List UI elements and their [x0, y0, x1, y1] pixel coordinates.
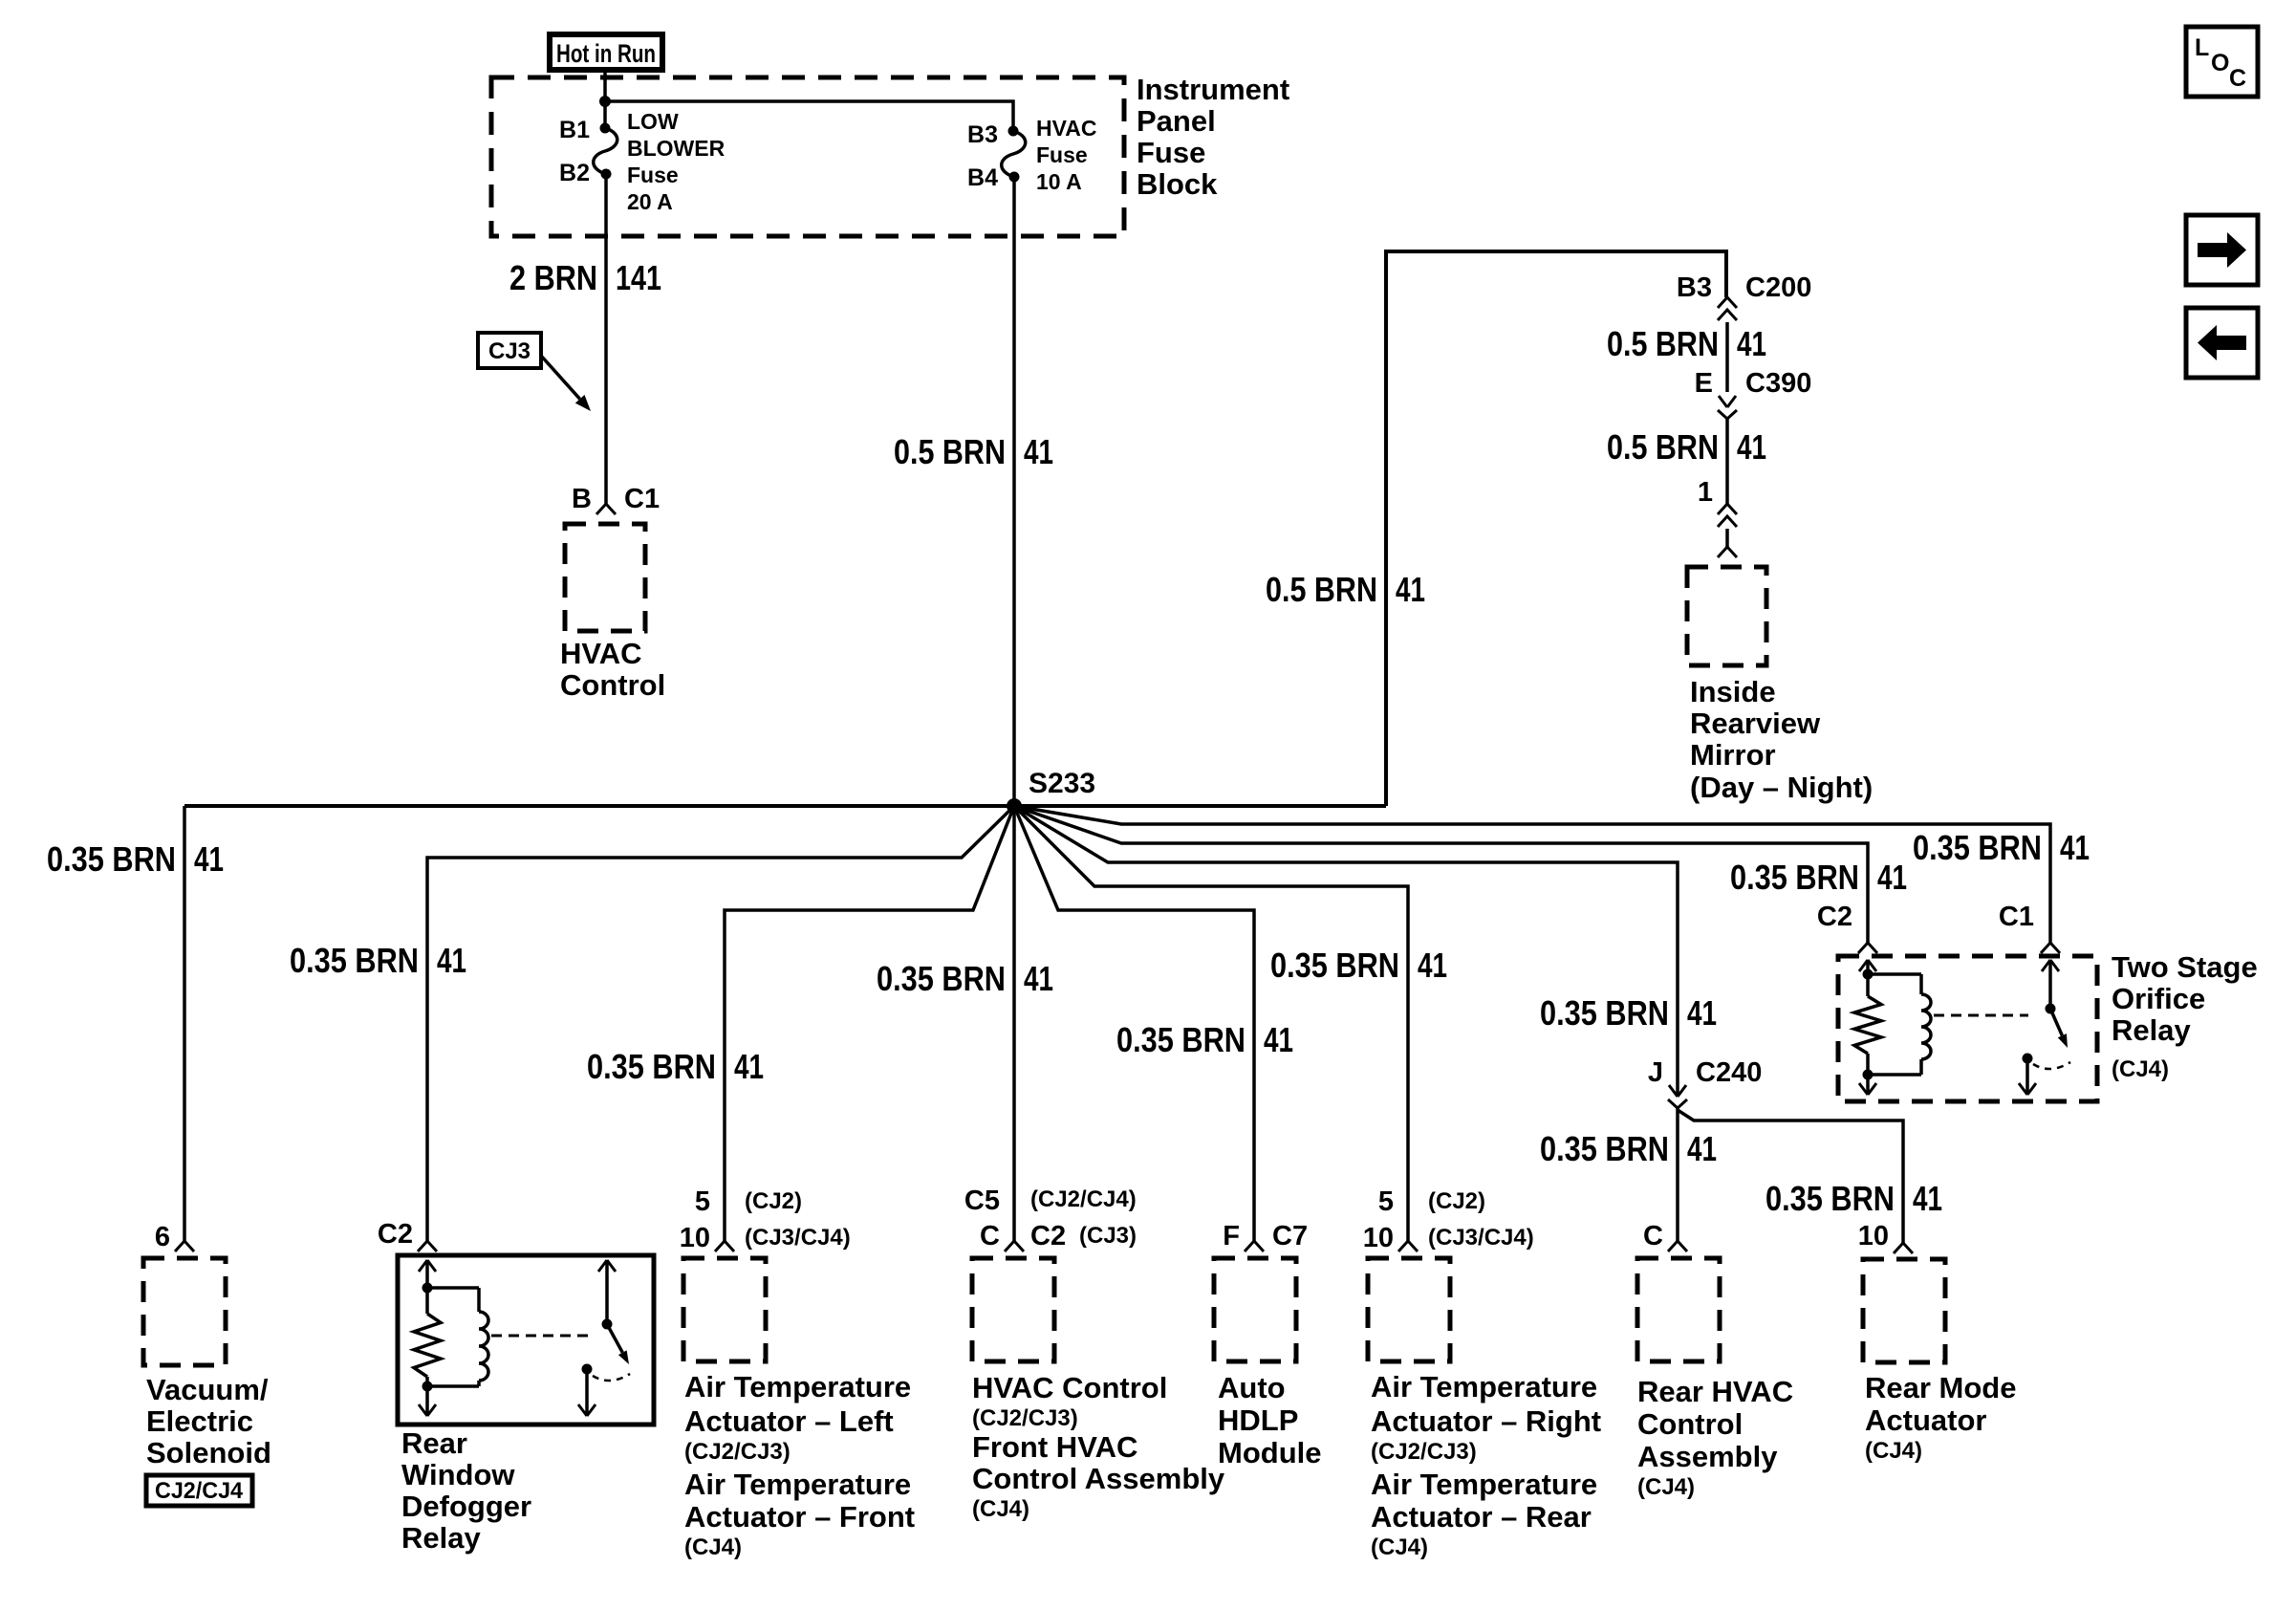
- wire: C240 down to Rear HVAC Control Assembly C, 0.35 BRN 41: [1676, 1108, 1679, 1241]
- svg-text:6: 6: [155, 1222, 170, 1252]
- defogger relay switch contact dot: [582, 1364, 593, 1375]
- svg-text:0.35 BRN: 0.35 BRN: [587, 1047, 716, 1086]
- terminal chevron at air temp actuator left: [715, 1241, 734, 1251]
- svg-text:Inside: Inside: [1690, 675, 1776, 708]
- LOC legend icon box: [2186, 27, 2258, 97]
- svg-text:41: 41: [1024, 432, 1053, 471]
- wire: connector 1 to mirror terminal: [1725, 529, 1729, 547]
- svg-text:B4: B4: [967, 164, 998, 191]
- wire: loop up and over to inline connector C200, 0.5 BRN 41: [1386, 251, 1726, 806]
- svg-text:0.35 BRN: 0.35 BRN: [1540, 1129, 1669, 1168]
- svg-text:(CJ2): (CJ2): [745, 1188, 802, 1214]
- svg-text:5: 5: [695, 1186, 710, 1217]
- terminal chevron at rear HVAC control assembly: [1668, 1241, 1687, 1251]
- terminal chevron at solenoid: [175, 1241, 194, 1251]
- svg-text:0.35 BRN: 0.35 BRN: [290, 941, 419, 980]
- svg-text:Fuse: Fuse: [1036, 142, 1088, 167]
- wire: S233 to inline connector J/C240, 0.35 BRN 41: [1014, 806, 1678, 1097]
- defogger relay resistor: [425, 1288, 429, 1314]
- svg-text:Block: Block: [1137, 167, 1218, 201]
- HVAC Control component dashed box: [565, 524, 645, 631]
- svg-text:2 BRN: 2 BRN: [509, 258, 597, 297]
- orifice relay control dashed link: [1934, 1014, 2028, 1017]
- svg-text:BLOWER: BLOWER: [627, 136, 726, 161]
- Air Temperature Actuator Right dashed box: [1368, 1258, 1450, 1361]
- svg-text:C390: C390: [1745, 368, 1811, 399]
- svg-text:41: 41: [2060, 828, 2090, 867]
- svg-text:141: 141: [616, 258, 661, 297]
- svg-text:1: 1: [1698, 477, 1713, 508]
- svg-text:B3: B3: [1677, 272, 1712, 303]
- defogger relay bottom junction dot: [422, 1382, 433, 1392]
- svg-text:10: 10: [1363, 1223, 1394, 1253]
- svg-text:(CJ4): (CJ4): [2112, 1056, 2169, 1082]
- orifice relay switch dashed arc: [2033, 1062, 2070, 1069]
- inline connector E/C390 arrow and chevron: [1719, 396, 1727, 407]
- terminal chevron at HVAC Control C1: [596, 504, 616, 514]
- terminal chevron at auto HDLP module: [1245, 1241, 1264, 1251]
- svg-text:Instrument: Instrument: [1137, 73, 1289, 106]
- orifice relay resistor: [1866, 974, 1870, 996]
- svg-text:(CJ4): (CJ4): [972, 1496, 1029, 1522]
- svg-text:10 A: 10 A: [1036, 169, 1082, 194]
- orifice relay coil return arrow down: [1866, 1075, 1870, 1095]
- svg-text:(CJ2/CJ3): (CJ2/CJ3): [684, 1439, 791, 1465]
- wire: junction to fuse B1: [603, 101, 607, 128]
- orifice relay coil input arrow up: [1859, 960, 1868, 971]
- wire: S233 to orifice relay C1, 0.35 BRN 41: [1014, 806, 2050, 943]
- svg-text:Actuator: Actuator: [1865, 1403, 1986, 1437]
- svg-text:(CJ2): (CJ2): [1428, 1188, 1485, 1214]
- svg-text:Fuse: Fuse: [1137, 136, 1205, 169]
- tag box CJ2/CJ4: [146, 1475, 252, 1506]
- junction dot at fuse block feed: [599, 96, 611, 107]
- fuse F2 HVAC 10A terminals B3/B4: [1008, 126, 1019, 137]
- svg-text:Assembly: Assembly: [1637, 1440, 1778, 1473]
- svg-text:41: 41: [1737, 427, 1766, 467]
- svg-text:Module: Module: [1218, 1436, 1322, 1469]
- terminal chevron at rear mode actuator: [1894, 1243, 1913, 1253]
- inline connector 1 double chevron: [1718, 504, 1737, 514]
- svg-text:0.35 BRN: 0.35 BRN: [1730, 858, 1859, 897]
- svg-text:41: 41: [1264, 1020, 1293, 1059]
- svg-text:Vacuum/: Vacuum/: [146, 1373, 269, 1406]
- svg-text:J: J: [1648, 1057, 1663, 1088]
- svg-text:Control: Control: [560, 668, 665, 702]
- svg-text:10: 10: [680, 1223, 710, 1253]
- Vacuum/Electric Solenoid dashed box: [143, 1258, 226, 1365]
- svg-text:F: F: [1223, 1221, 1240, 1251]
- svg-text:Air Temperature: Air Temperature: [684, 1468, 911, 1501]
- svg-text:S233: S233: [1029, 768, 1095, 799]
- wire: fuse B2 to HVAC Control pin B, 2 BRN 141: [604, 174, 608, 504]
- svg-text:B: B: [572, 484, 592, 514]
- svg-text:C240: C240: [1696, 1057, 1762, 1088]
- defogger relay control dashed link: [491, 1335, 595, 1338]
- svg-text:C1: C1: [624, 484, 660, 514]
- svg-text:O: O: [2211, 50, 2229, 76]
- Auto HDLP Module dashed box: [1214, 1258, 1296, 1361]
- svg-text:C: C: [980, 1221, 1000, 1251]
- svg-text:(Day – Night): (Day – Night): [1690, 771, 1873, 804]
- wire: junction across to fuse B3: [605, 101, 1013, 131]
- svg-text:C2: C2: [378, 1219, 413, 1250]
- svg-text:0.5 BRN: 0.5 BRN: [1266, 570, 1377, 609]
- defogger relay switch pivot dot: [602, 1319, 613, 1330]
- Inside Rearview Mirror dashed box: [1687, 567, 1766, 665]
- svg-text:C2: C2: [1030, 1221, 1066, 1251]
- orifice relay top junction dot: [1863, 969, 1874, 980]
- Rear Mode Actuator dashed box: [1863, 1259, 1945, 1362]
- svg-text:Rearview: Rearview: [1690, 707, 1821, 740]
- defogger relay switch common arrow up: [598, 1260, 607, 1272]
- svg-text:LOW: LOW: [627, 109, 679, 134]
- wire: S233 straight down to HVAC Control C5/C, 0.35 BRN 41: [1012, 806, 1016, 1241]
- svg-text:Actuator – Right: Actuator – Right: [1371, 1404, 1601, 1438]
- svg-text:CJ3: CJ3: [488, 338, 531, 364]
- svg-text:(CJ2/CJ4): (CJ2/CJ4): [1030, 1186, 1137, 1212]
- svg-text:(CJ3/CJ4): (CJ3/CJ4): [745, 1225, 851, 1251]
- svg-text:0.35 BRN: 0.35 BRN: [1116, 1020, 1245, 1059]
- svg-text:(CJ4): (CJ4): [1865, 1438, 1922, 1464]
- wire: Hot in Run down into fuse block: [603, 67, 607, 101]
- svg-text:41: 41: [437, 941, 466, 980]
- svg-text:Air Temperature: Air Temperature: [1371, 1370, 1597, 1403]
- inline connector J/C240 arrow and chevron: [1669, 1085, 1678, 1097]
- orifice relay switch blade: [2050, 1009, 2062, 1035]
- terminal chevron at HVAC control assembly: [1005, 1241, 1024, 1251]
- svg-text:Control: Control: [1637, 1407, 1743, 1441]
- splice S233: [1007, 798, 1022, 814]
- Front HVAC Control Assembly dashed box: [972, 1258, 1054, 1361]
- svg-text:B3: B3: [967, 121, 998, 148]
- svg-text:HVAC: HVAC: [1036, 116, 1096, 141]
- svg-text:L: L: [2195, 34, 2209, 61]
- orifice relay switch pivot dot: [2046, 1004, 2056, 1014]
- inline connector C200 double chevron: [1718, 297, 1737, 308]
- svg-text:Solenoid: Solenoid: [146, 1436, 271, 1469]
- svg-text:C: C: [1643, 1221, 1663, 1251]
- back-arrow icon box: [2186, 308, 2258, 378]
- terminal chevron at Inside Rearview Mirror: [1718, 547, 1737, 557]
- svg-text:Two Stage: Two Stage: [2112, 950, 2258, 984]
- svg-text:C: C: [2229, 65, 2246, 92]
- svg-text:0.35 BRN: 0.35 BRN: [47, 839, 176, 879]
- svg-text:Air Temperature: Air Temperature: [1371, 1468, 1597, 1501]
- wire: C200 to C390, 0.5 BRN 41: [1725, 322, 1729, 392]
- svg-text:Rear Mode: Rear Mode: [1865, 1371, 2016, 1404]
- svg-text:0.5 BRN: 0.5 BRN: [1607, 324, 1719, 363]
- callout box CJ3 with arrow: [478, 333, 541, 368]
- svg-text:Actuator – Front: Actuator – Front: [684, 1500, 915, 1534]
- forward-arrow icon box: [2186, 215, 2258, 285]
- svg-text:Hot in Run: Hot in Run: [556, 39, 656, 68]
- wire: bus corner down to Vacuum/Electric Solenoid, 0.35 BRN 41: [183, 806, 186, 1241]
- svg-text:41: 41: [194, 839, 224, 879]
- terminal chevron at orifice relay C1: [2041, 943, 2060, 953]
- svg-text:Fuse: Fuse: [627, 163, 679, 187]
- fuse F1 LOW BLOWER 20A terminals B1/B2: [600, 123, 611, 134]
- svg-text:41: 41: [1877, 858, 1907, 897]
- Rear Window Defogger Relay box: [398, 1255, 654, 1425]
- defogger relay output arrow down: [585, 1369, 589, 1416]
- svg-text:0.35 BRN: 0.35 BRN: [1913, 828, 2042, 867]
- defogger relay coil return arrow down: [425, 1386, 429, 1416]
- svg-text:0.35 BRN: 0.35 BRN: [1270, 946, 1399, 985]
- svg-text:41: 41: [1913, 1179, 1942, 1218]
- wire: C390 down to connector 1, 0.5 BRN 41: [1725, 419, 1729, 504]
- svg-text:20 A: 20 A: [627, 189, 673, 214]
- svg-text:C1: C1: [1999, 902, 2034, 932]
- svg-text:HVAC: HVAC: [560, 637, 642, 670]
- svg-text:HVAC Control: HVAC Control: [972, 1371, 1167, 1404]
- svg-text:(CJ4): (CJ4): [1637, 1474, 1695, 1500]
- terminal chevron at orifice relay C2: [1858, 943, 1877, 953]
- orifice relay coil in parallel: [1868, 972, 1921, 976]
- svg-text:41: 41: [1418, 946, 1447, 985]
- svg-text:10: 10: [1858, 1221, 1889, 1251]
- svg-text:B2: B2: [559, 160, 590, 186]
- svg-text:Relay: Relay: [2112, 1013, 2191, 1047]
- svg-text:Control Assembly: Control Assembly: [972, 1462, 1225, 1495]
- svg-text:41: 41: [1737, 324, 1766, 363]
- wire: C240 branch to Rear Mode Actuator 10, 0.35 BRN 41: [1678, 1110, 1903, 1243]
- defogger relay switch dashed arc: [593, 1374, 630, 1381]
- svg-text:(CJ4): (CJ4): [1371, 1534, 1428, 1560]
- svg-text:Orifice: Orifice: [2112, 982, 2205, 1015]
- svg-text:Rear HVAC: Rear HVAC: [1637, 1375, 1793, 1408]
- defogger relay top junction dot: [422, 1283, 433, 1294]
- wire: S233 to Rear Window Defogger Relay C2, 0.35 BRN 41: [427, 806, 1014, 1241]
- svg-text:0.35 BRN: 0.35 BRN: [877, 959, 1006, 998]
- svg-text:Panel: Panel: [1137, 104, 1216, 138]
- svg-text:Actuator – Left: Actuator – Left: [684, 1404, 894, 1438]
- orifice relay switch contact dot: [2023, 1054, 2033, 1064]
- svg-text:C200: C200: [1745, 272, 1811, 303]
- svg-text:CJ2/CJ4: CJ2/CJ4: [155, 1478, 244, 1504]
- svg-text:(CJ4): (CJ4): [684, 1534, 742, 1560]
- svg-text:C7: C7: [1272, 1221, 1308, 1251]
- svg-text:41: 41: [1687, 993, 1717, 1033]
- svg-text:41: 41: [1396, 570, 1425, 609]
- svg-text:5: 5: [1378, 1186, 1394, 1217]
- Two Stage Orifice Relay dashed box: [1838, 956, 2097, 1101]
- svg-text:C5: C5: [964, 1186, 1000, 1216]
- svg-text:Actuator – Rear: Actuator – Rear: [1371, 1500, 1592, 1534]
- svg-text:B1: B1: [559, 117, 590, 143]
- Rear HVAC Control Assembly dashed box: [1637, 1258, 1720, 1361]
- svg-text:Electric: Electric: [146, 1404, 253, 1438]
- Air Temperature Actuator Left dashed box: [683, 1258, 766, 1361]
- svg-text:Front HVAC: Front HVAC: [972, 1430, 1137, 1464]
- terminal chevron at air temp actuator right: [1398, 1241, 1418, 1251]
- svg-text:Auto: Auto: [1218, 1371, 1286, 1404]
- svg-text:(CJ2/CJ3): (CJ2/CJ3): [972, 1405, 1078, 1431]
- svg-text:(CJ3): (CJ3): [1079, 1223, 1137, 1249]
- orifice relay output arrow down: [2025, 1058, 2029, 1095]
- power tag box "Hot in Run": [550, 34, 662, 70]
- defogger relay coil in parallel: [427, 1286, 479, 1290]
- svg-text:41: 41: [1024, 959, 1053, 998]
- svg-text:Rear: Rear: [401, 1426, 467, 1460]
- svg-text:0.35 BRN: 0.35 BRN: [1540, 993, 1669, 1033]
- svg-text:41: 41: [1687, 1129, 1717, 1168]
- terminal chevron at defogger relay: [418, 1241, 437, 1251]
- wire: main horizontal bus from solenoid corner to mirror-loop corner: [184, 804, 1386, 808]
- defogger relay switch blade: [607, 1324, 622, 1353]
- svg-text:Mirror: Mirror: [1690, 738, 1776, 772]
- wire: fuse B4 down to splice S233, 0.5 BRN 41: [1012, 177, 1016, 806]
- svg-text:(CJ3/CJ4): (CJ3/CJ4): [1428, 1225, 1534, 1251]
- svg-text:(CJ2/CJ3): (CJ2/CJ3): [1371, 1439, 1477, 1465]
- svg-text:0.35 BRN: 0.35 BRN: [1765, 1179, 1895, 1218]
- svg-text:Relay: Relay: [401, 1521, 481, 1555]
- svg-text:Window: Window: [401, 1458, 515, 1491]
- wire: S233 to orifice relay C2, 0.35 BRN 41: [1014, 806, 1868, 943]
- svg-text:Air Temperature: Air Temperature: [684, 1370, 911, 1403]
- svg-text:E: E: [1695, 368, 1713, 399]
- Instrument Panel Fuse Block dashed box: [491, 77, 1124, 236]
- wire: S233 to Air Temperature Actuator Right, 0.35 BRN 41: [1014, 806, 1408, 1241]
- wire: S233 to Auto HDLP Module F/C7, 0.35 BRN 41: [1014, 806, 1254, 1241]
- svg-text:41: 41: [734, 1047, 764, 1086]
- orifice relay switch common arrow up: [2042, 960, 2050, 971]
- svg-text:HDLP: HDLP: [1218, 1403, 1298, 1437]
- svg-text:C2: C2: [1817, 902, 1852, 932]
- orifice relay bottom junction dot: [1863, 1070, 1874, 1080]
- svg-text:0.5 BRN: 0.5 BRN: [1607, 427, 1719, 467]
- svg-text:0.5 BRN: 0.5 BRN: [894, 432, 1006, 471]
- defogger relay pin arrow up (coil +): [419, 1260, 427, 1272]
- svg-text:Defogger: Defogger: [401, 1490, 531, 1523]
- wire: S233 to Air Temperature Actuator Left, 0.35 BRN 41: [725, 806, 1014, 1241]
